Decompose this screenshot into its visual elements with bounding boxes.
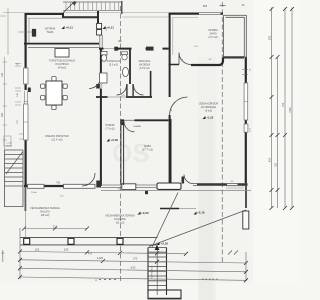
svg-text:105m: 105m xyxy=(31,192,37,194)
svg-text:+2,16: +2,16 xyxy=(161,242,169,246)
svg-text:SOBA: SOBA xyxy=(144,144,151,148)
svg-text:410: 410 xyxy=(267,157,271,162)
svg-text:220: 220 xyxy=(1,112,4,117)
svg-text:111: 111 xyxy=(53,225,58,229)
svg-text:-0,23: -0,23 xyxy=(207,116,214,120)
svg-text:(14.9 m2): (14.9 m2) xyxy=(139,67,149,70)
svg-text:(6 m2): (6 m2) xyxy=(205,110,212,113)
svg-text:148: 148 xyxy=(1,72,4,77)
svg-text:805: 805 xyxy=(203,4,208,8)
svg-text:+2,45: +2,45 xyxy=(6,143,12,145)
svg-text:+0,00: +0,00 xyxy=(111,138,119,142)
svg-text:(7.3 m2): (7.3 m2) xyxy=(106,128,115,131)
svg-text:235: 235 xyxy=(267,35,271,40)
svg-text:+0,11: +0,11 xyxy=(66,26,74,30)
svg-text:TAMA: TAMA xyxy=(46,30,53,34)
svg-text:(28 m2): (28 m2) xyxy=(41,214,50,217)
svg-text:1125: 1125 xyxy=(288,107,292,113)
svg-text:(4.9m2): (4.9m2) xyxy=(58,67,67,70)
svg-text:DNEVNI PROSTOR: DNEVNI PROSTOR xyxy=(45,134,68,138)
svg-text:755: 755 xyxy=(281,102,285,107)
svg-text:+2,16: +2,16 xyxy=(197,211,205,215)
svg-text:1125: 1125 xyxy=(97,256,103,260)
svg-text:170: 170 xyxy=(133,257,138,261)
svg-text:162: 162 xyxy=(35,248,40,252)
svg-text:(23 m2): (23 m2) xyxy=(116,222,125,225)
svg-text:163: 163 xyxy=(64,248,69,252)
svg-text:OS: OS xyxy=(112,138,150,168)
svg-text:475: 475 xyxy=(88,253,93,256)
svg-text:+0,00: +0,00 xyxy=(141,211,149,215)
svg-text:(5.3 m2): (5.3 m2) xyxy=(109,64,118,67)
svg-text:OMARE: OMARE xyxy=(133,125,142,128)
svg-text:410: 410 xyxy=(131,266,136,270)
svg-text:VETRNA: VETRNA xyxy=(45,27,56,31)
svg-text:(21.4 m2): (21.4 m2) xyxy=(51,138,62,142)
svg-text:VHOD: VHOD xyxy=(6,146,13,148)
svg-text:(17.7 m2): (17.7 m2) xyxy=(142,148,153,152)
svg-text:162: 162 xyxy=(274,162,277,167)
svg-text:VZPON 18x17: VZPON 18x17 xyxy=(152,265,154,279)
svg-text:(2.5 m2): (2.5 m2) xyxy=(209,36,218,39)
